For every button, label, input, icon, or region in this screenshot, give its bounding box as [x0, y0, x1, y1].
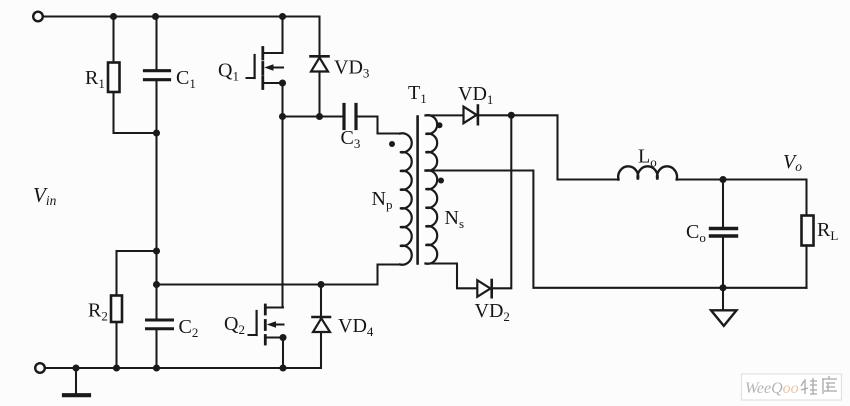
wire C1 top lead: [155, 17, 157, 70]
svg-text:Lo: Lo: [638, 146, 657, 170]
transistor Q2: [249, 305, 284, 344]
svg-text:VD2: VD2: [475, 300, 510, 324]
capacitor C2: [147, 320, 173, 329]
node Q2 bottom: [279, 364, 286, 371]
wire rectifier node down to VD2: [491, 115, 512, 288]
transformer secondary winding Ns upper: [426, 115, 438, 171]
wire top rail: [43, 15, 319, 17]
input terminal bottom: [35, 363, 45, 373]
svg-text:Vin: Vin: [33, 183, 57, 208]
diode VD3: [311, 17, 329, 117]
node R2-branch: [153, 247, 160, 254]
svg-text:R1: R1: [85, 67, 105, 91]
svg-text:Co: Co: [686, 221, 706, 245]
wire C3 to primary top: [358, 117, 400, 134]
transformer T1 core: [416, 117, 419, 264]
secondary polarity dot upper: [437, 122, 443, 128]
diode VD4: [313, 285, 331, 368]
svg-text:Np: Np: [372, 188, 393, 212]
resistor R2: [111, 296, 122, 323]
ground output: [711, 288, 737, 326]
capacitor C1: [145, 71, 170, 80]
wire R2 branch: [117, 251, 157, 296]
inductor Lo lead-in: [558, 178, 619, 180]
node rectifier output: [508, 112, 515, 119]
svg-text:C3: C3: [341, 127, 361, 151]
wire C2 bottom lead: [155, 331, 157, 368]
capacitor Co: [711, 229, 737, 237]
svg-text:Q1: Q1: [218, 60, 239, 84]
transistor Q1: [247, 48, 284, 89]
svg-text:VD1: VD1: [458, 83, 493, 107]
wire R2 bottom lead: [115, 322, 117, 368]
node top-C1: [152, 13, 159, 20]
wire secondary top lead: [426, 114, 464, 116]
wire secondary center tap: [428, 171, 807, 288]
wire midpoint to C3: [283, 115, 344, 117]
node gnd: [72, 364, 79, 371]
svg-text:C1: C1: [176, 67, 196, 91]
node VD4 top: [317, 281, 324, 288]
wire Q1 drain up: [281, 17, 283, 54]
svg-text:T1: T1: [408, 82, 427, 106]
node top-R1: [110, 13, 117, 20]
diode VD2: [477, 280, 491, 297]
svg-text:WeeQoo: WeeQoo: [745, 380, 799, 397]
node C2 bottom: [153, 364, 160, 371]
primary polarity dot: [389, 141, 395, 147]
wire R1 bottom lead: [114, 92, 157, 133]
ground input: [64, 368, 89, 395]
wire Q2 source down: [282, 338, 284, 368]
transformer primary winding Np: [400, 133, 412, 264]
wire RL bottom lead: [805, 246, 807, 288]
node Q1 source: [279, 79, 286, 86]
svg-text:R2: R2: [88, 300, 108, 324]
wire divider mid to primary bottom: [157, 265, 400, 285]
wire Co bottom lead: [722, 238, 724, 288]
node midpoint-C3: [279, 113, 286, 120]
bottom rail: [45, 367, 321, 369]
wire Co top lead: [722, 180, 724, 227]
wire VD1 to corner and down to Lo: [477, 115, 558, 179]
svg-text:VD4: VD4: [338, 315, 374, 339]
wire midpoint vertical: [281, 83, 283, 308]
svg-text:RL: RL: [817, 219, 838, 243]
node Lo-Co: [719, 176, 726, 183]
wire Lo to Vo corner: [677, 180, 807, 216]
wire R1 top lead: [112, 17, 114, 63]
node R1-C1: [153, 129, 160, 136]
wire secondary bottom lead: [426, 264, 478, 289]
node R2 bottom: [113, 364, 120, 371]
svg-text:C2: C2: [179, 316, 199, 340]
capacitor C3: [344, 105, 356, 129]
svg-text:VD3: VD3: [334, 57, 369, 81]
node midwire: [153, 281, 160, 288]
node Co bottom: [719, 284, 726, 291]
input terminal top: [33, 12, 43, 22]
svg-text:Q2: Q2: [224, 313, 245, 337]
svg-text:Ns: Ns: [445, 207, 465, 231]
node top-Q1: [279, 13, 286, 20]
inductor Lo: [618, 166, 677, 179]
resistor RL: [802, 216, 814, 246]
node Q2 source: [279, 334, 286, 341]
resistor R1: [108, 63, 120, 93]
diode VD1: [464, 106, 478, 125]
transformer secondary winding Ns lower: [426, 170, 438, 264]
secondary polarity dot lower: [438, 178, 444, 184]
svg-text:Vo: Vo: [783, 151, 802, 174]
watermark WeeQoo: [742, 374, 842, 400]
node VD3 bottom: [316, 113, 323, 120]
wire C column middle: [155, 82, 157, 319]
